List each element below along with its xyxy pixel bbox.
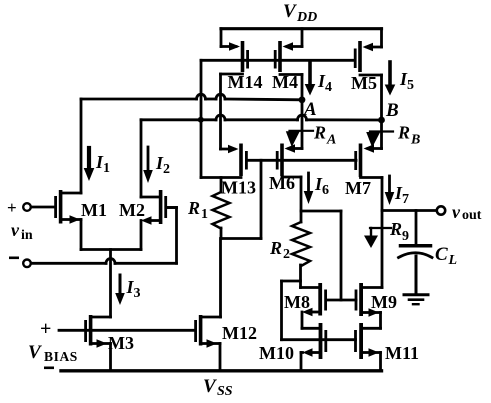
label M1 — [81, 200, 107, 220]
label M14 — [228, 72, 263, 92]
transistor M3 (NMOS) — [84, 315, 110, 370]
wire M2 drain to node B (with junction and hops) — [141, 115, 382, 197]
svg-text:7: 7 — [402, 192, 409, 207]
svg-text:6: 6 — [322, 183, 329, 198]
current arrow I3 — [115, 275, 125, 305]
wire plus input to M1 gate — [31, 206, 54, 209]
label vout — [452, 202, 482, 223]
svg-text:M12: M12 — [222, 323, 257, 343]
svg-text:1: 1 — [201, 207, 208, 222]
input terminal + — [7, 198, 17, 217]
label M4 — [272, 72, 298, 92]
svg-text:R: R — [187, 198, 200, 218]
VDD label — [283, 1, 317, 25]
transistor M9 (NMOS) — [355, 283, 382, 328]
wire R1 bottom node — [221, 237, 261, 240]
label M13 — [221, 178, 256, 198]
label I3 — [126, 277, 141, 301]
svg-text:1: 1 — [103, 161, 110, 176]
transistor M7 (PMOS) — [354, 120, 382, 288]
svg-text:A: A — [326, 133, 336, 148]
label M3 — [108, 333, 134, 353]
svg-text:M5: M5 — [351, 73, 377, 93]
transistor M12 (NMOS) — [194, 315, 220, 370]
svg-text:+: + — [40, 318, 51, 340]
current arrow I7 — [385, 176, 395, 205]
transistor M11 (NMOS) — [354, 323, 380, 370]
transistor M4 (PMOS) — [274, 29, 302, 100]
svg-text:out: out — [462, 208, 482, 223]
input terminal minus — [9, 257, 19, 260]
svg-text:M13: M13 — [221, 178, 256, 198]
terminal circle plus — [23, 203, 31, 211]
resistor R1 — [213, 178, 230, 239]
label M9 — [371, 292, 397, 312]
svg-text:2: 2 — [283, 247, 290, 262]
wire R1 node down to M12 drain — [219, 239, 222, 318]
wire differential pair tail — [81, 250, 141, 318]
label I5 — [399, 69, 414, 93]
VBIAS plus — [40, 318, 51, 340]
label M8 — [284, 292, 310, 312]
label CL — [435, 244, 457, 268]
capacitor CL — [399, 211, 433, 293]
label VSS — [203, 376, 233, 399]
wire VBIAS to M3/M12 gates — [59, 329, 195, 332]
label M6 — [269, 173, 295, 193]
VSS rail — [61, 369, 382, 372]
svg-text:M9: M9 — [371, 292, 397, 312]
label vin — [11, 220, 33, 243]
svg-text:M2: M2 — [119, 200, 145, 220]
current arrow I5 — [385, 62, 396, 96]
svg-text:9: 9 — [402, 229, 409, 244]
svg-text:M3: M3 — [108, 333, 134, 353]
transistor M2 (NMOS mirrored) — [141, 190, 177, 250]
svg-text:in: in — [21, 228, 33, 243]
svg-text:4: 4 — [325, 80, 332, 95]
wire vout node — [382, 209, 437, 212]
label I7 — [394, 183, 409, 207]
svg-text:M6: M6 — [269, 173, 295, 193]
svg-text:M4: M4 — [272, 72, 298, 92]
VBIAS minus — [44, 367, 54, 370]
label R1 — [187, 198, 208, 222]
svg-text:2: 2 — [163, 162, 170, 177]
label M5 — [351, 73, 377, 93]
gate wire M10-M11 — [282, 338, 356, 341]
svg-text:B: B — [410, 133, 420, 148]
resistor R2 — [292, 222, 310, 288]
svg-text:M11: M11 — [385, 343, 419, 363]
node-A resistance arrow RA — [286, 131, 313, 147]
terminal circle minus — [23, 260, 31, 268]
label VBIAS — [28, 342, 78, 364]
label I2 — [155, 153, 170, 177]
svg-text:C: C — [435, 244, 448, 265]
svg-text:V: V — [203, 376, 217, 397]
transistor M10 (NMOS mirrored) — [301, 323, 327, 370]
label B — [385, 100, 399, 121]
svg-text:BIAS: BIAS — [44, 349, 78, 364]
svg-text:R: R — [389, 219, 402, 239]
label M11 — [385, 343, 419, 363]
current arrow I2 — [143, 147, 153, 183]
svg-text:DD: DD — [296, 10, 317, 25]
svg-text:B: B — [385, 100, 399, 121]
wire M6 drain to M8/M9 gates — [301, 211, 341, 300]
label R9 — [389, 219, 409, 244]
output resistance arrow R9 — [364, 228, 391, 248]
svg-text:R: R — [313, 123, 326, 143]
label I6 — [314, 174, 329, 198]
svg-text:M8: M8 — [284, 292, 310, 312]
wire M1 drain to node A (with hops) — [81, 94, 302, 193]
label I4 — [317, 71, 332, 95]
transistor M14 (PMOS) — [221, 29, 250, 149]
VDD rail — [221, 27, 382, 30]
wire R2 bottom tap to M10/M11 gates — [282, 281, 301, 340]
transistor M13 (PMOS cascode) — [201, 120, 248, 178]
label RA — [313, 123, 336, 148]
label M2 — [119, 200, 145, 220]
label M12 — [222, 323, 257, 343]
gate wire M14-M4-M5 — [201, 59, 355, 62]
label M7 — [345, 178, 371, 198]
svg-text:v: v — [452, 202, 461, 222]
transistor M5 (PMOS) — [354, 29, 382, 120]
wire R1 node up to gate bus — [260, 160, 263, 238]
label I1 — [95, 152, 110, 176]
svg-text:M14: M14 — [228, 72, 263, 92]
svg-text:v: v — [11, 220, 20, 240]
junction dot gate-bus / M2 drain — [198, 117, 204, 123]
ground — [404, 295, 428, 305]
gate wire M13-M6-M7 — [247, 159, 357, 162]
gate wire M8-M9 — [326, 299, 356, 302]
svg-text:L: L — [448, 253, 458, 268]
svg-text:V: V — [283, 1, 297, 22]
node-B resistance arrow RB — [366, 132, 393, 148]
svg-text:5: 5 — [407, 78, 414, 93]
label R2 — [269, 238, 290, 262]
node B junction dot — [378, 117, 385, 124]
svg-text:M7: M7 — [345, 178, 371, 198]
svg-text:3: 3 — [134, 286, 141, 301]
wire minus input to M2 gate (hop over tail) — [31, 208, 176, 264]
current arrow I4 — [305, 61, 316, 96]
label A — [303, 99, 317, 120]
svg-text:R: R — [397, 123, 410, 143]
svg-text:M1: M1 — [81, 200, 107, 220]
svg-text:M10: M10 — [259, 343, 294, 363]
label M10 — [259, 343, 294, 363]
current arrow I6 — [304, 173, 314, 204]
transistor M1 (NMOS) — [54, 190, 81, 250]
node A junction dot — [299, 96, 306, 103]
transistor M6 (PMOS) — [276, 100, 302, 222]
current arrow I1 — [84, 148, 95, 181]
svg-text:R: R — [269, 238, 282, 258]
label RB — [397, 123, 420, 148]
svg-text:+: + — [7, 198, 17, 217]
svg-text:SS: SS — [217, 384, 233, 399]
wire gate bus down-drop — [200, 60, 203, 120]
terminal vout — [437, 206, 445, 214]
transistor M8 (NMOS mirrored) — [301, 283, 328, 328]
svg-text:V: V — [28, 342, 42, 363]
